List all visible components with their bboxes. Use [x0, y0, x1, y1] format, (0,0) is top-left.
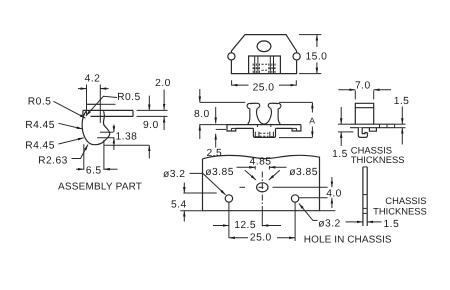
chassis bar top line — [227, 124, 301, 126]
1.38 tick upper — [100, 131, 113, 133]
svg-text:4.0: 4.0 — [326, 189, 342, 200]
ext line hook lip left — [338, 131, 353, 133]
bar bottom extension to right — [137, 115, 168, 117]
bar right end — [394, 124, 396, 128]
clip cap right side / 4.2 extension — [99, 85, 101, 123]
svg-text:ø3.85: ø3.85 — [205, 167, 234, 178]
dim 8.0 down arrow — [199, 89, 201, 102]
svg-text:8.0: 8.0 — [194, 109, 210, 120]
svg-text:7.0: 7.0 — [355, 81, 371, 92]
latch hidden legs through bar — [257, 125, 270, 137]
hidden dashes in legs — [253, 64, 275, 74]
left hole — [225, 195, 232, 202]
body band line — [355, 107, 373, 109]
svg-text:HOLE IN CHASSIS: HOLE IN CHASSIS — [304, 235, 392, 246]
clip blob outline — [82, 111, 110, 145]
svg-text:25.0: 25.0 — [253, 82, 275, 93]
latch bottom ext right — [279, 137, 313, 139]
dim 25.0 right arrow — [279, 84, 296, 86]
svg-text:ø3.2: ø3.2 — [318, 219, 340, 230]
crown top extension left — [200, 101, 246, 103]
plate outline — [203, 157, 320, 211]
dim 4.0 up arrow — [331, 198, 333, 208]
svg-text:6.5: 6.5 — [86, 166, 102, 177]
left arm end wrap — [227, 125, 236, 131]
right hole — [291, 195, 298, 202]
leader R4.45 upper — [59, 123, 83, 129]
leader phi3.2 left — [190, 173, 226, 195]
bar ticks — [379, 124, 381, 128]
svg-text:4.2: 4.2 — [85, 74, 101, 85]
dim 1.5 bottom left arrow — [346, 221, 363, 223]
dim 7.0 left ext — [354, 90, 356, 99]
latch feet — [255, 132, 259, 137]
dim 15.0 top extension — [299, 34, 321, 36]
dim 1.5 left down arrow — [340, 107, 342, 124]
dim 4.2 left arrow — [78, 88, 87, 90]
dim 8.0 up arrow — [199, 125, 201, 139]
dim 1.38 down arrow — [113, 125, 115, 133]
svg-text:4.85: 4.85 — [250, 157, 272, 168]
dim 1.5 right down arrow — [401, 107, 403, 125]
svg-text:9.0: 9.0 — [143, 120, 159, 131]
dim 6.5 left extension — [83, 144, 85, 170]
plate bottom ext right — [320, 210, 336, 212]
dim A down arrow — [311, 127, 313, 138]
dim 15.0 down arrow — [316, 63, 318, 74]
dim A up arrow — [311, 102, 313, 112]
svg-text:2.0: 2.0 — [155, 78, 171, 89]
svg-text:R2.63: R2.63 — [38, 156, 68, 167]
dim 4.85 right arrow — [269, 166, 286, 168]
dim 6.5 left arrow — [76, 168, 84, 170]
dim 2.0 up arrow — [163, 117, 165, 131]
svg-text:ø3.85: ø3.85 — [289, 167, 318, 178]
dim 4.0 ext line center — [240, 186, 246, 188]
body rect — [355, 103, 373, 124]
dim 4.85 left tick — [254, 166, 256, 170]
plate bar bottom — [91, 115, 134, 117]
svg-text:5.4: 5.4 — [171, 199, 187, 210]
inner leg lines — [254, 56, 256, 74]
dim 2.5 up arrow — [215, 134, 217, 148]
dim 6.5 right extension — [103, 140, 105, 170]
dim 4.2 right arrow — [100, 88, 108, 90]
dim 1.38 up arrow — [113, 138, 115, 150]
crown right arm — [264, 103, 281, 124]
leader phi3.85 right diagonal — [269, 170, 280, 180]
ext line bar top left — [338, 123, 350, 125]
svg-text:ASSEMBLY PART: ASSEMBLY PART — [58, 182, 142, 193]
small latch below bar — [369, 128, 376, 132]
center hole vertical centerline — [261, 172, 263, 213]
dim 6.5 right arrow — [104, 168, 118, 170]
leader R0.5 left — [54, 101, 86, 118]
dim 12.5 right arrow — [262, 225, 281, 227]
left side circle — [228, 53, 235, 60]
thin bar bottom cap — [363, 212, 367, 214]
dim 4.85 left arrow — [237, 166, 256, 168]
dim 1.5 left up arrow — [340, 132, 342, 146]
svg-text:25.0: 25.0 — [250, 233, 272, 244]
1.38 tick lower — [97, 137, 114, 139]
clip bottom extension line — [105, 144, 150, 146]
plate bottom ext left — [180, 210, 202, 212]
svg-text:1.5: 1.5 — [384, 219, 400, 230]
left hole extension down — [228, 202, 230, 237]
svg-text:15.0: 15.0 — [306, 52, 328, 63]
crown left arm — [247, 103, 264, 124]
dim 5.4 extension line — [183, 192, 216, 194]
dim 7.0 right ext — [373, 90, 375, 99]
svg-text:R4.45: R4.45 — [25, 120, 55, 131]
thin bar left edge — [362, 167, 364, 226]
svg-text:1.5: 1.5 — [332, 149, 348, 160]
center hole horizontal centerline dash — [259, 186, 264, 188]
dim 7.0 left arrow — [338, 89, 355, 91]
plate wavy top — [203, 155, 320, 158]
center hole extension below plate — [261, 212, 263, 226]
ext line bar bottom right — [395, 127, 406, 129]
top view outline — [231, 35, 296, 74]
dim 7.0 right arrow — [374, 89, 391, 91]
svg-text:R0.5: R0.5 — [28, 97, 52, 108]
thin bar tick 2 — [363, 207, 367, 209]
crown top extension right — [279, 101, 312, 103]
svg-text:1.38: 1.38 — [116, 132, 138, 143]
right arm end wrap — [292, 125, 301, 131]
thin bar tick 1 — [363, 194, 367, 196]
dim 12.5 left arrow — [213, 225, 229, 227]
leader R4.45 lower — [59, 138, 84, 144]
svg-text:R0.5: R0.5 — [117, 92, 141, 103]
dim 9.0 up arrow — [148, 145, 150, 158]
hook bottom left — [358, 128, 367, 138]
ext line bar top right — [395, 123, 406, 125]
dim 4.0 ext from center hole — [273, 186, 328, 188]
plate bar top — [83, 109, 133, 111]
dim 1.5 bottom right arrow — [367, 221, 381, 223]
leader R0.5 right — [86, 96, 117, 116]
svg-text:THICKNESS: THICKNESS — [351, 154, 405, 165]
clip cap left side / 4.2 extension — [86, 85, 88, 115]
svg-text:R4.45: R4.45 — [25, 141, 55, 152]
bar bottom — [350, 127, 395, 129]
inner rect — [249, 56, 281, 74]
plate bar right edge — [132, 110, 134, 116]
leader R2.63 — [72, 145, 89, 159]
dim 9.0 down arrow — [148, 96, 150, 111]
dim 4.0 down arrow — [331, 177, 333, 187]
bar top — [350, 123, 395, 125]
dim 2.5 down arrow — [215, 107, 217, 124]
dim 15.0 up arrow — [316, 35, 318, 47]
svg-text:THICKNESS: THICKNESS — [373, 206, 427, 217]
dim 25.0 bottom right arrow — [277, 237, 295, 239]
dim 15.0 bottom extension — [299, 73, 321, 75]
dim 4.85 right tick — [268, 166, 270, 170]
right hole extension down — [294, 202, 296, 241]
center hole — [257, 183, 268, 192]
dim 25.0 right tick — [295, 80, 297, 85]
chassis bottom short ext — [216, 128, 226, 130]
dim 25.0 left tick — [231, 80, 233, 85]
right side circle — [293, 53, 300, 60]
thin bar right edge — [366, 167, 368, 226]
dim 5.4 up arrow — [183, 211, 185, 222]
dim 5.4 down arrow — [183, 183, 185, 194]
leader phi3.85 left diagonal — [245, 170, 256, 180]
dim 1.5 right up arrow — [401, 128, 403, 145]
bar top extension to right — [137, 109, 168, 111]
dim 25.0 left arrow — [232, 84, 249, 86]
leader phi3.2 right — [299, 203, 318, 220]
svg-text:A: A — [309, 116, 315, 126]
center hole ellipse — [257, 41, 271, 52]
clip cap top — [87, 103, 101, 105]
dim 25.0 bottom left arrow — [229, 237, 248, 239]
dim 4.0 ext line right hole — [299, 197, 327, 199]
svg-text:ø3.2: ø3.2 — [163, 169, 185, 180]
svg-text:12.5: 12.5 — [234, 220, 256, 231]
latch below bar — [253, 128, 275, 137]
dim 2.0 down arrow — [163, 90, 165, 110]
chassis bar bottom segments — [236, 127, 254, 129]
svg-text:1.5: 1.5 — [394, 96, 410, 107]
chassis top ext left — [199, 124, 227, 126]
plate bar left edge — [82, 110, 84, 116]
thin bar top cap — [363, 166, 367, 168]
cap top extension to right — [100, 103, 115, 105]
